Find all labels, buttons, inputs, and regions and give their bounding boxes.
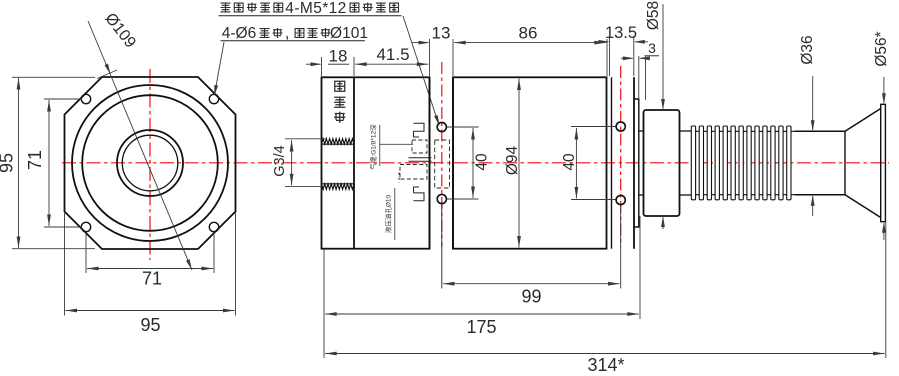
svg-text:Ø101: Ø101	[330, 25, 368, 42]
bellows ribs	[691, 126, 695, 200]
dimension phi94 line	[518, 79, 520, 248]
dimension G3/4 line	[291, 140, 293, 185]
arrowhead d109 lower	[186, 259, 194, 271]
leader note1 to M5 hole	[403, 16, 439, 124]
note line 1 hanzi part A	[221, 3, 231, 12]
leader note2 to bolt hole	[215, 42, 224, 92]
label 3 underline	[645, 55, 660, 57]
G3/4 thread root bottom	[322, 183, 355, 185]
mount flange 2 right edge	[633, 77, 635, 248]
extension mystery	[645, 56, 647, 100]
mount flange 1 right edge	[452, 77, 454, 248]
G3/4 thread crest bottom	[322, 184, 355, 190]
svg-text:86: 86	[519, 24, 538, 43]
bellows root line bottom	[691, 194, 795, 196]
extension line top	[12, 76, 95, 78]
extension line square left	[64, 213, 66, 316]
dimension 314 line	[325, 353, 884, 355]
extension 40 left bottom	[447, 198, 479, 200]
front view bore circle	[122, 135, 178, 191]
svg-text:Ø56*: Ø56*	[873, 31, 890, 66]
front view second circle	[82, 95, 218, 231]
neck upper line	[639, 130, 644, 132]
main cylinder seam line	[611, 77, 613, 248]
svg-text:314*: 314*	[587, 355, 624, 375]
front view bolt hole 1	[81, 94, 90, 103]
svg-text:99: 99	[521, 287, 541, 307]
svg-text:40: 40	[561, 153, 578, 171]
dimension 71 horizontal line	[87, 268, 213, 270]
hidden port bracket upper	[414, 123, 425, 137]
leader line diameter 109	[88, 21, 192, 270]
note line 1 hanzi part B	[350, 3, 359, 12]
svg-text:4-Ø6: 4-Ø6	[222, 25, 256, 42]
extension 40 right top	[571, 126, 616, 128]
hidden dashed box upper	[412, 140, 427, 153]
dimension 99 line	[443, 283, 620, 285]
note comma	[286, 36, 289, 40]
extension line G3/4 top	[285, 138, 327, 140]
centerline horizontal main axis	[62, 162, 889, 164]
label oil underline	[394, 188, 396, 240]
dimension 13 outside arrow	[412, 42, 428, 44]
dimension 135 arrow right	[635, 41, 648, 43]
extension 86 right	[606, 39, 608, 76]
dimension phi56 upper	[883, 77, 885, 103]
dimension phi56 lower	[883, 223, 885, 240]
note line 2 hanzi A	[260, 29, 270, 38]
front view bolt hole 4	[209, 222, 218, 231]
dimension phi58 upper	[662, 4, 664, 109]
extension line hole top	[44, 98, 82, 100]
label gas underline	[379, 125, 381, 166]
front view bolt hole 3	[81, 222, 90, 231]
dimension 18 outside arrow	[306, 63, 320, 65]
svg-text:Ø58: Ø58	[645, 1, 662, 30]
extension 99 right	[620, 205, 622, 289]
svg-text:71: 71	[25, 150, 45, 170]
horn upper slant	[845, 109, 881, 132]
extension line G3/4 bottom	[285, 186, 327, 188]
svg-text:18: 18	[329, 47, 348, 66]
front view boss circle	[117, 130, 183, 196]
extension 175 right	[639, 216, 641, 319]
svg-text:95: 95	[0, 153, 17, 173]
note line 2 hanzi B	[295, 29, 304, 38]
dimension 40 right line	[575, 128, 577, 199]
note line 2 underline	[221, 40, 366, 42]
centerline vertical mount flange 1	[441, 62, 443, 247]
main cylinder rectangle	[453, 77, 607, 248]
flange2 hole bottom	[616, 195, 625, 204]
svg-text:G3/4: G3/4	[272, 145, 288, 176]
extension 135 right	[633, 36, 635, 76]
svg-text:3: 3	[648, 40, 656, 56]
label controller vertical hanzi	[335, 81, 345, 91]
front view outer circle	[72, 85, 228, 241]
dimension 95 vertical line	[18, 78, 20, 248]
svg-text:13: 13	[432, 24, 451, 43]
extension line hole bottom	[44, 226, 82, 228]
label 18 underline	[328, 63, 349, 65]
extension 18 left	[321, 57, 323, 76]
controller divider line	[353, 77, 355, 248]
centerline vertical mount flange 2	[620, 66, 622, 247]
horn lower slant	[845, 195, 881, 218]
arrowhead leader note2	[212, 85, 218, 96]
flange1 hole top	[437, 122, 446, 131]
hidden bore dashed box flange1	[435, 140, 450, 188]
extension 40 left top	[447, 126, 479, 128]
neck2 upper line	[680, 130, 692, 132]
arrowhead d109 upper	[105, 64, 113, 76]
front view flange octagon outline	[65, 77, 236, 249]
svg-text:4-M5*12: 4-M5*12	[285, 0, 346, 17]
dimension 71 vertical line	[48, 100, 50, 226]
extension line square right	[235, 213, 237, 316]
arrowhead leader note1	[434, 115, 441, 127]
G3/4 thread crest top	[322, 139, 355, 145]
G3/4 thread root top	[322, 143, 355, 145]
dimension 175 line	[325, 313, 639, 315]
svg-text:41.5: 41.5	[376, 45, 409, 64]
chamfer extension tick	[97, 70, 117, 79]
outlet tube top line	[795, 130, 845, 132]
svg-text:175: 175	[466, 317, 496, 337]
extension 3 right	[638, 56, 640, 98]
mount flange 1 left edge	[429, 77, 431, 248]
extension 18 right	[353, 57, 355, 76]
extension line bottom	[12, 248, 95, 250]
phi58 block	[644, 110, 680, 216]
svg-text:40: 40	[474, 153, 491, 171]
svg-text:Ø94: Ø94	[504, 145, 521, 175]
gas port slot lines	[409, 157, 432, 159]
extension 13 right	[452, 39, 454, 76]
svg-text:71: 71	[142, 269, 162, 289]
neck lower line	[639, 194, 644, 196]
svg-text:13.5: 13.5	[605, 24, 637, 42]
neck2 lower line	[680, 194, 692, 196]
gas label leader	[380, 143, 413, 145]
extension 314 right	[885, 222, 887, 358]
extension 40 right bottom	[571, 199, 616, 201]
dimension 95 horizontal line	[66, 310, 235, 312]
dimension 3 arrows	[621, 57, 633, 59]
flange1 hole bottom	[437, 194, 446, 203]
dimension 135 arrow left	[595, 41, 608, 43]
extension 41.5 right	[429, 39, 431, 76]
dimension phi58 lower	[662, 217, 664, 229]
horn rim	[881, 104, 886, 221]
hidden dashed box lower	[400, 165, 427, 180]
extension line hole right	[213, 232, 215, 273]
svg-text:95: 95	[140, 315, 160, 335]
dimension phi36 lower	[812, 196, 814, 216]
dimension 86 line	[454, 42, 606, 44]
flange2 hole top	[616, 122, 625, 131]
horn joint line	[844, 131, 846, 194]
centerline vertical front view	[149, 69, 151, 260]
svg-text:液压油孔Ø10: 液压油孔Ø10	[384, 194, 393, 233]
svg-text:Ø36: Ø36	[799, 35, 816, 64]
extension 135 left	[609, 36, 611, 76]
dimension 41.5 line	[355, 63, 428, 65]
pump body outer rectangle	[322, 77, 430, 248]
extension 99 left	[441, 204, 443, 289]
extension 175 left	[323, 249, 325, 358]
dimension phi36 upper	[812, 76, 814, 130]
hidden center tick	[398, 173, 400, 184]
dimension 40 left line	[472, 128, 474, 198]
spacer disc profile	[634, 99, 639, 227]
svg-text:气嚔:G1/8*12深: 气嚔:G1/8*12深	[369, 124, 378, 170]
outlet tube bottom line	[795, 194, 845, 196]
extension line hole left	[85, 232, 87, 273]
front view bolt hole 2	[209, 94, 218, 103]
bellows root line top	[691, 130, 795, 132]
hidden port bracket lower	[414, 187, 425, 201]
note line 1 underline	[219, 15, 402, 17]
